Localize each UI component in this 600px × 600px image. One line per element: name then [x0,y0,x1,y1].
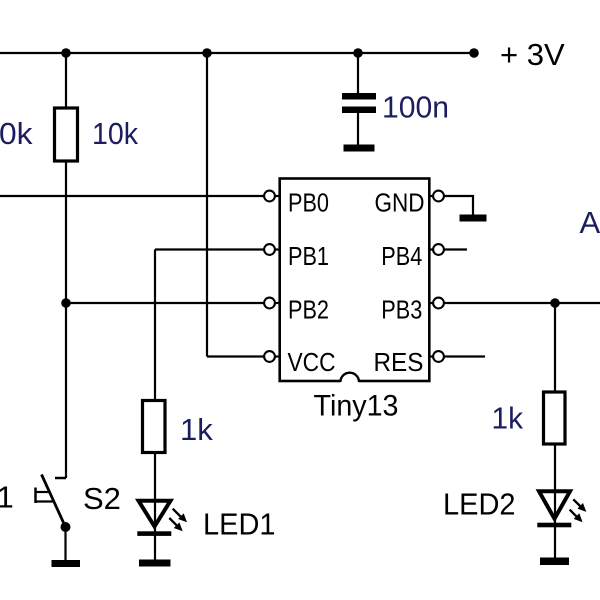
pin circle GND [433,191,444,202]
wire PB1 horizontal [155,248,266,250]
switch S2 actuator bracket [34,488,37,504]
pin circle PB0 [264,191,275,202]
pin stub VCC [264,355,280,357]
svg-text:PB1: PB1 [288,241,329,271]
wire RES stub [444,355,485,357]
wire C1 bottom [357,113,359,146]
wire GND pin to ground [444,196,473,216]
pin stub PB1 [264,248,280,250]
svg-text:1k: 1k [492,401,524,436]
svg-text:PB3: PB3 [381,295,422,325]
op IC U1 Tiny13 body [280,179,430,382]
wire PB3 to right edge [444,302,600,304]
notch pin1 indicator on bottom edge [340,374,359,383]
resistor R3 1k [544,392,566,444]
svg-text:RES: RES [374,347,424,377]
switch S2 lever pivot dot [61,522,71,532]
pin stub PB2 [264,302,280,304]
pin stub PB3 [429,302,444,304]
svg-text:S2: S2 [83,481,121,516]
LED1 cathode bar [137,531,171,536]
switch S2 contact foot [55,477,66,480]
wire S2 to ground [64,527,66,561]
resistor R1 10k [55,108,78,161]
node junction PB2 wire [61,298,71,308]
svg-text:PB2: PB2 [288,295,329,325]
capacitor C1 100n plate top [342,93,376,100]
LED2 arrow 1 [573,499,582,508]
pin circle RES [433,351,444,362]
node terminal dot +3V [469,48,479,58]
svg-text:100n: 100n [382,90,449,125]
pin stub PB0 [264,195,280,197]
ground bar under C1 [344,145,375,152]
svg-text:LED2: LED2 [443,487,516,522]
wire LED2 branch vertical [554,303,556,394]
LED1 diode triangle [139,501,171,527]
pin circle PB4 [433,244,444,255]
ground bar under LED1 [139,560,171,567]
wire VCC vertical from rail [206,53,208,357]
svg-text:+ 3V: + 3V [500,37,565,72]
svg-text:LED1: LED1 [203,507,276,542]
node junction on rail at R1 [61,48,71,58]
ground bar under LED2 [540,558,569,566]
capacitor C1 100n plate bottom [342,107,376,114]
ground bar under S2 [52,560,81,567]
svg-text:10k: 10k [92,116,138,151]
node junction PB3 / LED2 branch [550,298,560,308]
LED1 arrow 1 [173,509,183,519]
svg-text:Tiny13: Tiny13 [314,390,399,423]
wire PB0 horizontal [0,195,266,197]
wire R2 to LED1 [154,452,156,561]
wire VCC horizontal to pin [207,355,266,357]
svg-text:A: A [580,205,600,240]
svg-text:0k: 0k [0,116,33,151]
wire PB1 vertical down to R2 [154,250,156,403]
node junction on rail at VCC wire [202,48,212,58]
wire +3V top rail [0,52,474,54]
LED1 arrow 2 [169,518,178,527]
ground bar at GND pin [460,215,487,222]
LED2 diode triangle [539,491,570,518]
node junction on rail at C1 [353,48,363,58]
svg-text:VCC: VCC [288,347,336,377]
pin circle PB3 [433,298,444,309]
LED2 cathode bar [537,523,571,528]
svg-text:PB4: PB4 [381,241,422,271]
wire C1 top [357,53,359,95]
svg-text:GND: GND [375,188,425,218]
wire PB4 stub [444,248,467,250]
pin stub GND [429,195,444,197]
LED2 arrow 2 [570,510,579,519]
svg-text:1: 1 [0,480,14,515]
wire R3 to LED2 [554,444,556,558]
svg-text:1k: 1k [180,412,213,447]
wire PB2 horizontal [66,302,266,304]
pin circle VCC [264,351,275,362]
resistor R2 1k [143,401,166,453]
pin circle PB2 [264,298,275,309]
pin stub RES [429,355,444,357]
pin stub PB4 [429,248,444,250]
wire vertical R1 branch [65,53,67,478]
switch S2 lever [42,475,66,528]
pin circle PB1 [264,244,275,255]
svg-text:PB0: PB0 [288,188,329,218]
